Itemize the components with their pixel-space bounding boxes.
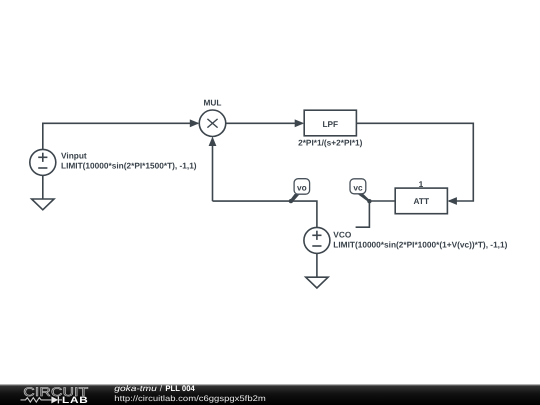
svg-text:goka-tmu: goka-tmu (114, 384, 157, 393)
wire: ATT left to node vc junction (369, 200, 395, 202)
node vc junction dot (367, 199, 371, 203)
svg-text:Vinput: Vinput (61, 151, 87, 161)
block ATT (395, 188, 447, 214)
arrowhead into ATT right (447, 197, 457, 205)
multiplier MUL (199, 110, 226, 137)
footer bar (0, 384, 540, 405)
svg-text:1: 1 (419, 179, 424, 189)
voltage source VCO (304, 227, 330, 253)
CircuitLab logo: CIRCUIT outline text (23, 385, 88, 399)
node vc flag (350, 179, 370, 203)
svg-text:2*PI*1/(s+2*PI*1): 2*PI*1/(s+2*PI*1) (298, 137, 363, 147)
svg-text:LPF: LPF (322, 119, 338, 129)
svg-text:http://circuitlab.com/c6ggspgx: http://circuitlab.com/c6ggspgx5fb2m (114, 394, 266, 403)
svg-text:vo: vo (297, 182, 307, 192)
wire: vc stub down and left (356, 201, 370, 227)
wire: MUL output to LPF input (226, 122, 303, 124)
svg-text:LIMIT(10000*sin(2*PI*1000*(1+V: LIMIT(10000*sin(2*PI*1000*(1+V(vc))*T), … (333, 240, 507, 250)
ground (left) (32, 199, 54, 210)
svg-text:LAB: LAB (62, 395, 88, 405)
wire: VCO bottom to ground (316, 253, 318, 277)
wire: vo line to VCO top (213, 201, 317, 227)
svg-text:ATT: ATT (414, 196, 430, 206)
CircuitLab logo: LAB text (62, 395, 88, 405)
wire: from Vinput top up and right to MUL input (43, 123, 198, 149)
CircuitLab logo: diode symbol (51, 396, 58, 403)
wire: feedback into MUL bottom (212, 144, 214, 201)
node vo junction dot (289, 199, 293, 203)
wire: LPF output right, down, into ATT right side (356, 123, 473, 201)
arrowhead into MUL left (190, 119, 200, 127)
node vo flag (290, 179, 310, 203)
wire: Vinput bottom to ground (42, 175, 44, 199)
arrowhead into MUL bottom (209, 137, 217, 147)
voltage source Vinput (30, 149, 56, 175)
CircuitLab logo: resistor zigzag (21, 398, 52, 403)
arrowhead into LPF left (295, 119, 305, 127)
svg-text:MUL: MUL (204, 98, 222, 108)
svg-text:vc: vc (353, 182, 363, 192)
block LPF (304, 110, 356, 136)
ground (under VCO) (306, 277, 328, 288)
svg-text:VCO: VCO (333, 230, 352, 240)
svg-text:LIMIT(10000*sin(2*PI*1500*T),: LIMIT(10000*sin(2*PI*1500*T), -1,1) (61, 161, 197, 171)
svg-text:PLL 004: PLL 004 (165, 384, 195, 393)
